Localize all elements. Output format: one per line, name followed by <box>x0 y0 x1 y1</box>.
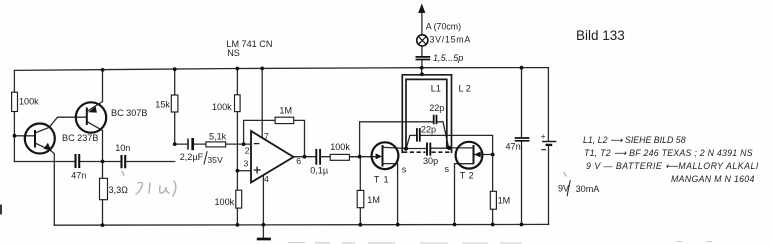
svg-text:Bild 133: Bild 133 <box>576 28 625 43</box>
svg-text:T 2: T 2 <box>460 170 474 180</box>
svg-text:s: s <box>402 165 407 175</box>
svg-text:30mA: 30mA <box>576 184 601 194</box>
svg-text:+: + <box>541 131 546 141</box>
svg-text:4: 4 <box>264 174 269 184</box>
svg-text:BC 307B: BC 307B <box>111 108 147 118</box>
svg-text:1,5...5p: 1,5...5p <box>433 53 463 63</box>
svg-text:3,3Ω: 3,3Ω <box>109 185 129 195</box>
svg-text:NS: NS <box>227 48 240 58</box>
svg-text:30p: 30p <box>423 156 438 166</box>
svg-text:0,1µ: 0,1µ <box>310 165 329 175</box>
svg-text:15k: 15k <box>155 100 170 110</box>
svg-text:L1: L1 <box>431 84 441 94</box>
svg-text:A (70cm): A (70cm) <box>426 21 461 31</box>
svg-text:100k: 100k <box>19 96 39 106</box>
svg-text:L1, L2 ⟶ SIEHE BILD 58: L1, L2 ⟶ SIEHE BILD 58 <box>583 135 686 145</box>
svg-text:47n: 47n <box>506 141 521 151</box>
svg-text:100k: 100k <box>330 142 350 152</box>
svg-text:L 2: L 2 <box>459 83 471 93</box>
svg-text:6: 6 <box>296 156 301 166</box>
svg-text:100k: 100k <box>212 102 232 112</box>
svg-text:35V: 35V <box>207 155 223 165</box>
svg-text:1M: 1M <box>498 196 511 206</box>
svg-text:7: 7 <box>264 131 269 141</box>
svg-text:47n: 47n <box>71 170 86 180</box>
svg-text:22p: 22p <box>429 103 444 113</box>
svg-text:9 V — BATTERIE ⟵MALLORY ALKALI: 9 V — BATTERIE ⟵MALLORY ALKALI <box>586 161 759 171</box>
svg-text:22p: 22p <box>421 124 436 134</box>
svg-text:BC 237B: BC 237B <box>62 133 98 143</box>
svg-text:T 1: T 1 <box>374 174 390 184</box>
svg-text:T1, T2 ⟶ BF 246 TEXAS ; 2 N 43: T1, T2 ⟶ BF 246 TEXAS ; 2 N 4391 NS <box>584 148 753 158</box>
svg-text:MANGAN M N 1604: MANGAN M N 1604 <box>671 174 755 184</box>
svg-text:5,1k: 5,1k <box>209 132 227 142</box>
svg-text:10n: 10n <box>115 143 130 153</box>
svg-text:3V/15mA: 3V/15mA <box>430 34 471 44</box>
svg-text:1M: 1M <box>279 106 292 116</box>
svg-text:1M: 1M <box>367 195 380 205</box>
svg-text:100k: 100k <box>215 197 235 207</box>
svg-text:s: s <box>445 164 450 174</box>
svg-text:2: 2 <box>245 146 250 156</box>
svg-text:2,2µF: 2,2µF <box>180 152 204 162</box>
svg-text:3: 3 <box>244 159 249 169</box>
